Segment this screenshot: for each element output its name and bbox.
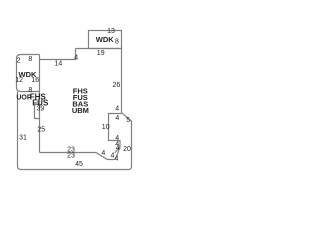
- svg-text:4: 4: [115, 155, 119, 162]
- svg-text:31: 31: [19, 134, 27, 141]
- svg-text:4: 4: [116, 145, 120, 152]
- svg-text:4: 4: [115, 115, 119, 122]
- svg-text:19: 19: [97, 50, 105, 57]
- svg-text:FUS: FUS: [32, 99, 49, 108]
- svg-text:UBM: UBM: [72, 106, 89, 115]
- svg-text:14: 14: [55, 61, 63, 68]
- svg-text:8: 8: [28, 56, 32, 63]
- svg-text:5: 5: [126, 117, 130, 124]
- svg-text:20: 20: [123, 146, 131, 153]
- svg-text:26: 26: [113, 82, 121, 89]
- svg-text:23: 23: [67, 153, 75, 160]
- svg-text:4: 4: [101, 150, 105, 157]
- svg-text:25: 25: [37, 126, 45, 133]
- svg-text:4: 4: [74, 55, 78, 62]
- svg-text:45: 45: [75, 161, 83, 168]
- svg-text:2: 2: [17, 58, 21, 65]
- svg-text:WDK: WDK: [19, 70, 37, 79]
- svg-text:4: 4: [115, 106, 119, 113]
- svg-text:WDK: WDK: [96, 35, 114, 44]
- svg-text:8: 8: [115, 38, 119, 45]
- svg-text:10: 10: [102, 124, 110, 131]
